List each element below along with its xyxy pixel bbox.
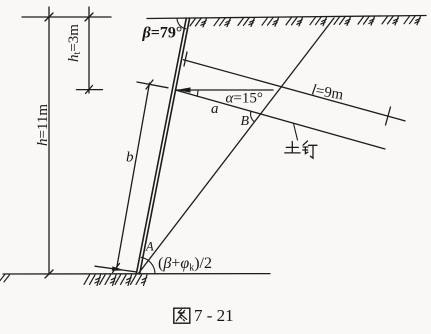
- slip plane line: [138, 18, 334, 274]
- caption 图 7-21 (图 drawn strokes): [174, 308, 190, 323]
- tick at bottom of b: [113, 264, 120, 273]
- base angle arc (beta+phi)/2: [141, 257, 155, 274]
- svg-text:α=15°: α=15°: [226, 91, 263, 107]
- svg-text:B: B: [241, 114, 250, 129]
- soil nail line: [175, 90, 385, 149]
- svg-text:A: A: [145, 240, 154, 254]
- bottom ground hatching left edge partial: [0, 275, 10, 282]
- extension dash at nail level for h1: [77, 89, 103, 91]
- label 土钉 (soil nail, drawn strokes): [285, 141, 317, 158]
- top extension line: [22, 16, 111, 18]
- top ground hatching: [190, 16, 421, 27]
- alpha angle arc: [196, 90, 199, 96]
- svg-text:(β+φk)/2: (β+φk)/2: [158, 255, 212, 274]
- dimension line h=11m: [48, 7, 50, 274]
- top ground surface line: [147, 16, 426, 19]
- dimension line h1=3m: [88, 7, 90, 93]
- tick at end of l: [386, 107, 391, 125]
- angle arc beta at wall top: [177, 18, 186, 29]
- svg-text:β=79°: β=79°: [142, 25, 183, 42]
- bottom ground line: [3, 273, 270, 275]
- bottom ground hatching: [84, 275, 147, 286]
- svg-text:7 - 21: 7 - 21: [194, 306, 234, 325]
- tick at bottom of h: [45, 270, 53, 278]
- dimension line l=9m: [184, 60, 406, 121]
- svg-text:h=11m: h=11m: [35, 104, 51, 146]
- horizontal reference line at nail head: [175, 89, 273, 91]
- tick at top of h: [45, 13, 53, 21]
- leader line to soil nail label: [294, 124, 298, 141]
- tick at start of l: [184, 52, 187, 66]
- dimension line b: [117, 83, 150, 269]
- tick at top of b: [146, 80, 153, 89]
- wall facing (double line): [136, 18, 186, 274]
- svg-text:ht=3m: ht=3m: [66, 24, 83, 62]
- tick at bottom of h1: [86, 86, 93, 94]
- arrowhead at nail head pointing to wall: [176, 87, 191, 92]
- extension dash at top of b: [137, 82, 168, 88]
- arrowhead at bottom of b pointing to wall base: [112, 266, 125, 270]
- extension dash at bottom of b: [95, 266, 136, 272]
- svg-text:a: a: [211, 101, 219, 117]
- tick at top of h1: [85, 13, 93, 21]
- angle arc B at nail/slip intersection: [251, 111, 255, 122]
- svg-text:b: b: [126, 150, 134, 166]
